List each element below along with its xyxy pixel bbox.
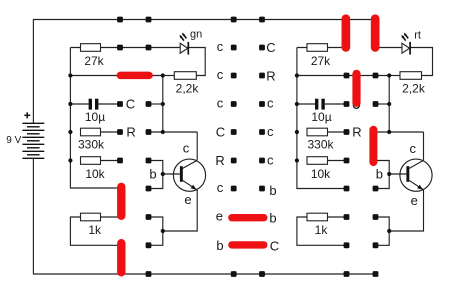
svg-text:R: R — [266, 68, 275, 83]
resistor R5 1k left — [81, 213, 103, 237]
svg-text:2,2k: 2,2k — [176, 82, 200, 96]
wire bottom negative rail — [33, 158, 375, 274]
terminal pins row6 — [146, 186, 379, 192]
svg-text:c: c — [409, 141, 416, 156]
svg-text:rt: rt — [414, 30, 421, 42]
wire right collector vertical — [423, 132, 425, 160]
svg-text:9 V: 9 V — [6, 135, 21, 146]
wire left row1 LED branch — [70, 47, 180, 49]
svg-text:b: b — [149, 167, 156, 182]
svg-text:R: R — [126, 124, 135, 139]
jumper wire red middle row8 — [228, 241, 267, 248]
terminal pins bottom rail — [146, 271, 379, 277]
resistor R8 330k right — [307, 128, 335, 152]
wire left row8 pin to emitter junction — [149, 231, 163, 245]
wire left row6 base lower — [149, 174, 163, 189]
wire left vertical link — [162, 76, 164, 133]
svg-text:10k: 10k — [311, 167, 331, 181]
wire left row5 to base upper — [149, 161, 163, 175]
resistor R7 2,2k right — [400, 72, 426, 96]
svg-text:C: C — [270, 238, 279, 253]
svg-text:C: C — [266, 40, 275, 55]
terminal pins row5 — [117, 158, 349, 164]
wire right 1k right lead — [328, 216, 347, 218]
wire right row2 — [297, 75, 389, 77]
terminal pins row1 — [117, 45, 265, 51]
LED D1 gn — [180, 28, 203, 54]
svg-text:b: b — [269, 183, 276, 198]
wire left vertical rail — [70, 48, 118, 189]
wire left 1k loop — [70, 217, 118, 245]
resistor R6 27k right — [307, 44, 331, 68]
battery 9V — [22, 123, 44, 158]
svg-text:C: C — [126, 96, 135, 111]
svg-text:27k: 27k — [84, 54, 104, 68]
jumper wire red right rows2-3 — [352, 70, 360, 107]
jumper wire red top right second — [371, 14, 380, 51]
LED D2 rt — [401, 30, 421, 55]
terminal pins row8 — [146, 242, 379, 248]
wire right row3 to node — [325, 103, 347, 105]
wire right row5 10k branch — [328, 160, 347, 162]
svg-text:c: c — [267, 96, 274, 111]
wire left emitter return — [163, 190, 197, 231]
svg-text:e: e — [184, 192, 191, 207]
wire right vertical link — [388, 76, 390, 133]
terminal pins row2 — [231, 73, 379, 79]
wire right 1k loop — [297, 217, 347, 245]
wire right row6 base lower — [376, 174, 390, 189]
svg-text:b: b — [376, 166, 383, 181]
wire left base — [163, 173, 180, 175]
svg-text:gn: gn — [190, 28, 202, 40]
svg-text:C: C — [216, 124, 225, 139]
node letters middle left column — [215, 39, 225, 253]
wire right vertical rail — [297, 48, 347, 189]
capacitor C2 10µ right — [311, 99, 331, 125]
wire right row7 pin to emitter junction — [376, 217, 390, 231]
wire left collector vertical — [196, 132, 198, 160]
svg-text:1k: 1k — [315, 223, 329, 237]
wire right row3 capacitor branch — [297, 103, 315, 105]
wire right LED cathode to edge — [410, 48, 432, 76]
wire right row1 LED branch — [379, 47, 402, 49]
terminal pins row4 — [117, 129, 349, 135]
wire left row3 capacitor branch — [70, 103, 88, 105]
wire right row4 node to collector — [374, 131, 424, 133]
svg-text:c: c — [267, 153, 274, 168]
terminal pins row7 — [146, 214, 379, 220]
resistor R2 2,2k left — [174, 72, 199, 96]
svg-text:b: b — [269, 210, 276, 225]
wire left LED cathode to 2,2k — [188, 48, 205, 76]
terminal pins row3 — [117, 101, 378, 107]
svg-text:b: b — [216, 238, 223, 253]
svg-text:10k: 10k — [85, 167, 105, 181]
resistor R3 330k left — [78, 128, 105, 152]
resistor R10 1k right — [307, 213, 328, 237]
svg-text:c: c — [217, 96, 224, 111]
wire top positive rail — [33, 20, 375, 124]
wire left row4 330k branch — [101, 131, 121, 133]
wire left row2 — [70, 75, 162, 77]
wire left 1k right lead — [101, 216, 119, 218]
junction dots right rail — [295, 73, 299, 162]
transistor Q1 — [149, 140, 205, 207]
wire right row1 27k branch — [297, 47, 343, 49]
wire right row4 330k branch — [328, 131, 347, 133]
svg-text:c: c — [183, 140, 190, 155]
svg-text:c: c — [267, 124, 274, 139]
socket circle under jumper — [353, 102, 359, 108]
junction dots left rail — [68, 73, 72, 162]
wire left row7 pin to emitter junction — [149, 217, 163, 231]
wire left row3 to node C — [98, 103, 120, 105]
jumper wire red left rows6-7 — [117, 183, 125, 220]
svg-text:c: c — [217, 39, 224, 54]
battery plus sign — [24, 112, 30, 118]
jumper wire red left row8-bottom — [117, 239, 125, 277]
svg-text:c: c — [217, 67, 224, 82]
svg-text:1k: 1k — [88, 223, 102, 237]
svg-text:e: e — [411, 193, 418, 208]
wire left row5 10k branch — [101, 160, 121, 162]
jumper wire red left row2 — [117, 72, 153, 80]
svg-text:c: c — [217, 180, 224, 195]
svg-text:27k: 27k — [311, 54, 331, 68]
resistor R9 10k right — [307, 157, 331, 181]
wire right base — [389, 173, 406, 175]
junction dots left link — [161, 73, 165, 233]
jumper wire red middle row7 — [228, 214, 267, 221]
capacitor C1 10µ left — [85, 99, 105, 125]
wire left row3 node to link — [149, 103, 163, 105]
node letters middle right column — [266, 40, 279, 253]
wire right row8 pin to emitter junction — [376, 231, 390, 245]
svg-text:2,2k: 2,2k — [402, 82, 426, 96]
transistor Q2 — [376, 141, 432, 208]
svg-text:R: R — [352, 124, 361, 139]
wire right 2,2k left lead — [389, 75, 400, 77]
resistor R1 27k left — [81, 44, 105, 68]
svg-text:10µ: 10µ — [85, 110, 105, 124]
wire left row4 node to collector — [149, 131, 198, 133]
wire right row3 node to link — [376, 103, 390, 105]
terminal pins top rail — [117, 17, 265, 23]
svg-text:e: e — [216, 209, 223, 224]
resistor R4 10k left — [81, 157, 106, 181]
wire right emitter return — [389, 190, 423, 231]
wire left 2,2k left lead — [163, 75, 175, 77]
jumper wire red top right first — [342, 14, 351, 51]
svg-text:10µ: 10µ — [311, 110, 331, 124]
svg-text:330k: 330k — [78, 138, 105, 152]
svg-text:R: R — [215, 153, 224, 168]
jumper wire red right rows4-5 — [369, 126, 377, 166]
svg-text:330k: 330k — [307, 138, 334, 152]
junction dots right link — [387, 73, 391, 233]
wire right row5 to base upper — [374, 161, 389, 175]
